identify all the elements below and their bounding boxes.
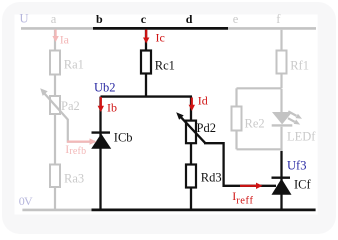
svg-text:d: d <box>186 12 193 26</box>
svg-text:LEDf: LEDf <box>287 129 316 143</box>
svg-text:b: b <box>96 12 103 26</box>
svg-text:c: c <box>141 12 147 26</box>
svg-text:Ic: Ic <box>156 31 165 45</box>
svg-text:U: U <box>20 12 29 26</box>
svg-text:Ia: Ia <box>60 32 70 46</box>
svg-text:Ib: Ib <box>107 100 117 114</box>
svg-text:Rd3: Rd3 <box>201 171 222 185</box>
svg-text:Rf1: Rf1 <box>290 58 309 72</box>
svg-text:a: a <box>51 12 57 26</box>
svg-text:ICb: ICb <box>114 131 133 145</box>
svg-text:Pa2: Pa2 <box>61 99 80 113</box>
svg-text:ICf: ICf <box>294 178 312 192</box>
svg-text:Rc1: Rc1 <box>155 58 175 72</box>
svg-text:Ra3: Ra3 <box>64 172 84 186</box>
svg-text:Ub2: Ub2 <box>94 81 116 95</box>
svg-text:Pd2: Pd2 <box>197 121 216 135</box>
svg-text:Re2: Re2 <box>245 117 265 131</box>
svg-text:Id: Id <box>198 93 208 107</box>
svg-text:e: e <box>233 12 239 26</box>
svg-text:Uf3: Uf3 <box>287 158 306 172</box>
svg-text:0V: 0V <box>19 194 33 208</box>
svg-text:Ra1: Ra1 <box>64 58 84 72</box>
